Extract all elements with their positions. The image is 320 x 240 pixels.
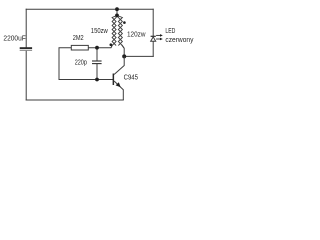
node transformer center — [115, 14, 119, 18]
wire LED lower lead — [152, 41, 154, 56]
capacitor C1 2200uF plates — [20, 47, 32, 51]
svg-text:2M2: 2M2 — [73, 35, 84, 42]
svg-text:220p: 220p — [75, 59, 87, 66]
wire transformer stem — [116, 9, 118, 15]
svg-text:120zw: 120zw — [127, 32, 146, 39]
wire collector node to LED branch — [124, 55, 153, 57]
node 220p bottom / base — [95, 78, 99, 82]
svg-text:C945: C945 — [124, 74, 138, 81]
wire 2M2 left lead and base loop — [59, 48, 113, 80]
wire 2M2 right lead to winding — [88, 45, 112, 48]
transistor Q1 C945 — [113, 56, 125, 100]
svg-text:LED: LED — [165, 28, 175, 35]
svg-text:czerwony: czerwony — [165, 37, 193, 44]
wire left rail upper — [25, 9, 27, 47]
node 220p top — [95, 46, 99, 50]
svg-text:150zw: 150zw — [91, 28, 109, 35]
wire 120zw bottom to collector node — [122, 45, 124, 56]
wire bottom rail — [26, 99, 123, 101]
capacitor C2 220p plates — [92, 61, 102, 64]
resistor R1 2M2 — [71, 45, 88, 50]
wire LED upper lead — [152, 9, 154, 36]
polarity dot left winding — [110, 43, 113, 46]
svg-text:2200uF: 2200uF — [3, 36, 25, 43]
transformer T1 winding 120zw — [117, 15, 124, 48]
node junction top rail — [115, 7, 119, 11]
node collector / LED — [122, 54, 126, 58]
wire 220p upper lead — [96, 48, 98, 61]
wire left rail lower — [25, 51, 27, 100]
wire top rail — [26, 8, 153, 10]
wire 220p lower lead — [96, 64, 98, 80]
transformer T1 winding 150zw — [111, 15, 117, 47]
polarity dot right winding — [123, 21, 126, 24]
LED D1 — [151, 34, 163, 41]
